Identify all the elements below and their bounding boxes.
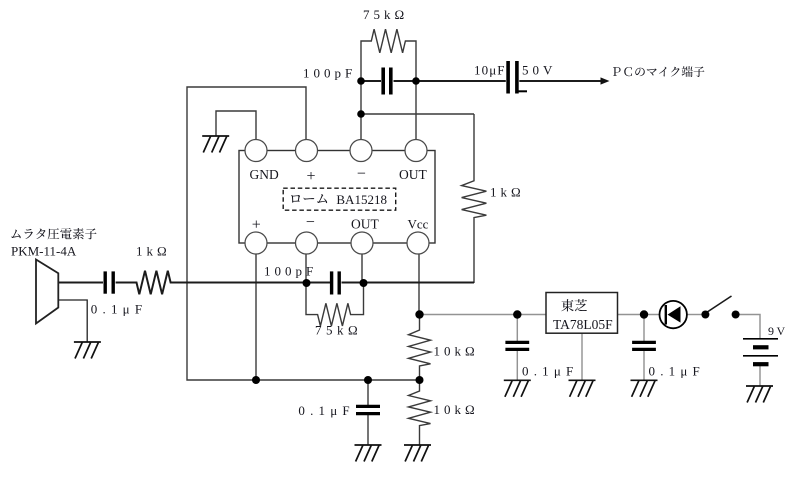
svg-text:PKM-11-4A: PKM-11-4A [11,244,77,259]
svg-text:GND: GND [250,167,279,182]
svg-text:0.1μF: 0.1μF [649,363,705,378]
svg-text:+: + [307,168,316,185]
svg-text:0.1μF: 0.1μF [298,403,354,418]
svg-text:1kΩ: 1kΩ [136,244,171,259]
svg-text:OUT: OUT [351,217,379,232]
svg-text:−: − [306,214,315,231]
svg-text:50V: 50V [522,63,556,78]
svg-text:TA78L05F: TA78L05F [553,317,613,332]
svg-text:BA15218: BA15218 [336,192,387,207]
svg-text:10kΩ: 10kΩ [434,402,479,417]
svg-text:10kΩ: 10kΩ [434,344,479,359]
svg-text:100pF: 100pF [264,264,317,279]
svg-text:10μF: 10μF [474,63,506,78]
svg-text:75kΩ: 75kΩ [363,7,408,22]
svg-text:0.1μF: 0.1μF [522,363,578,378]
svg-text:1kΩ: 1kΩ [490,185,525,200]
svg-text:−: − [357,166,366,183]
svg-text:0.1μF: 0.1μF [91,302,147,317]
svg-text:OUT: OUT [399,167,427,182]
svg-text:75kΩ: 75kΩ [315,323,362,338]
svg-text:Vcc: Vcc [408,217,429,232]
svg-text:100pF: 100pF [303,66,356,81]
svg-text:9V: 9V [768,324,788,338]
svg-text:+: + [252,216,261,233]
